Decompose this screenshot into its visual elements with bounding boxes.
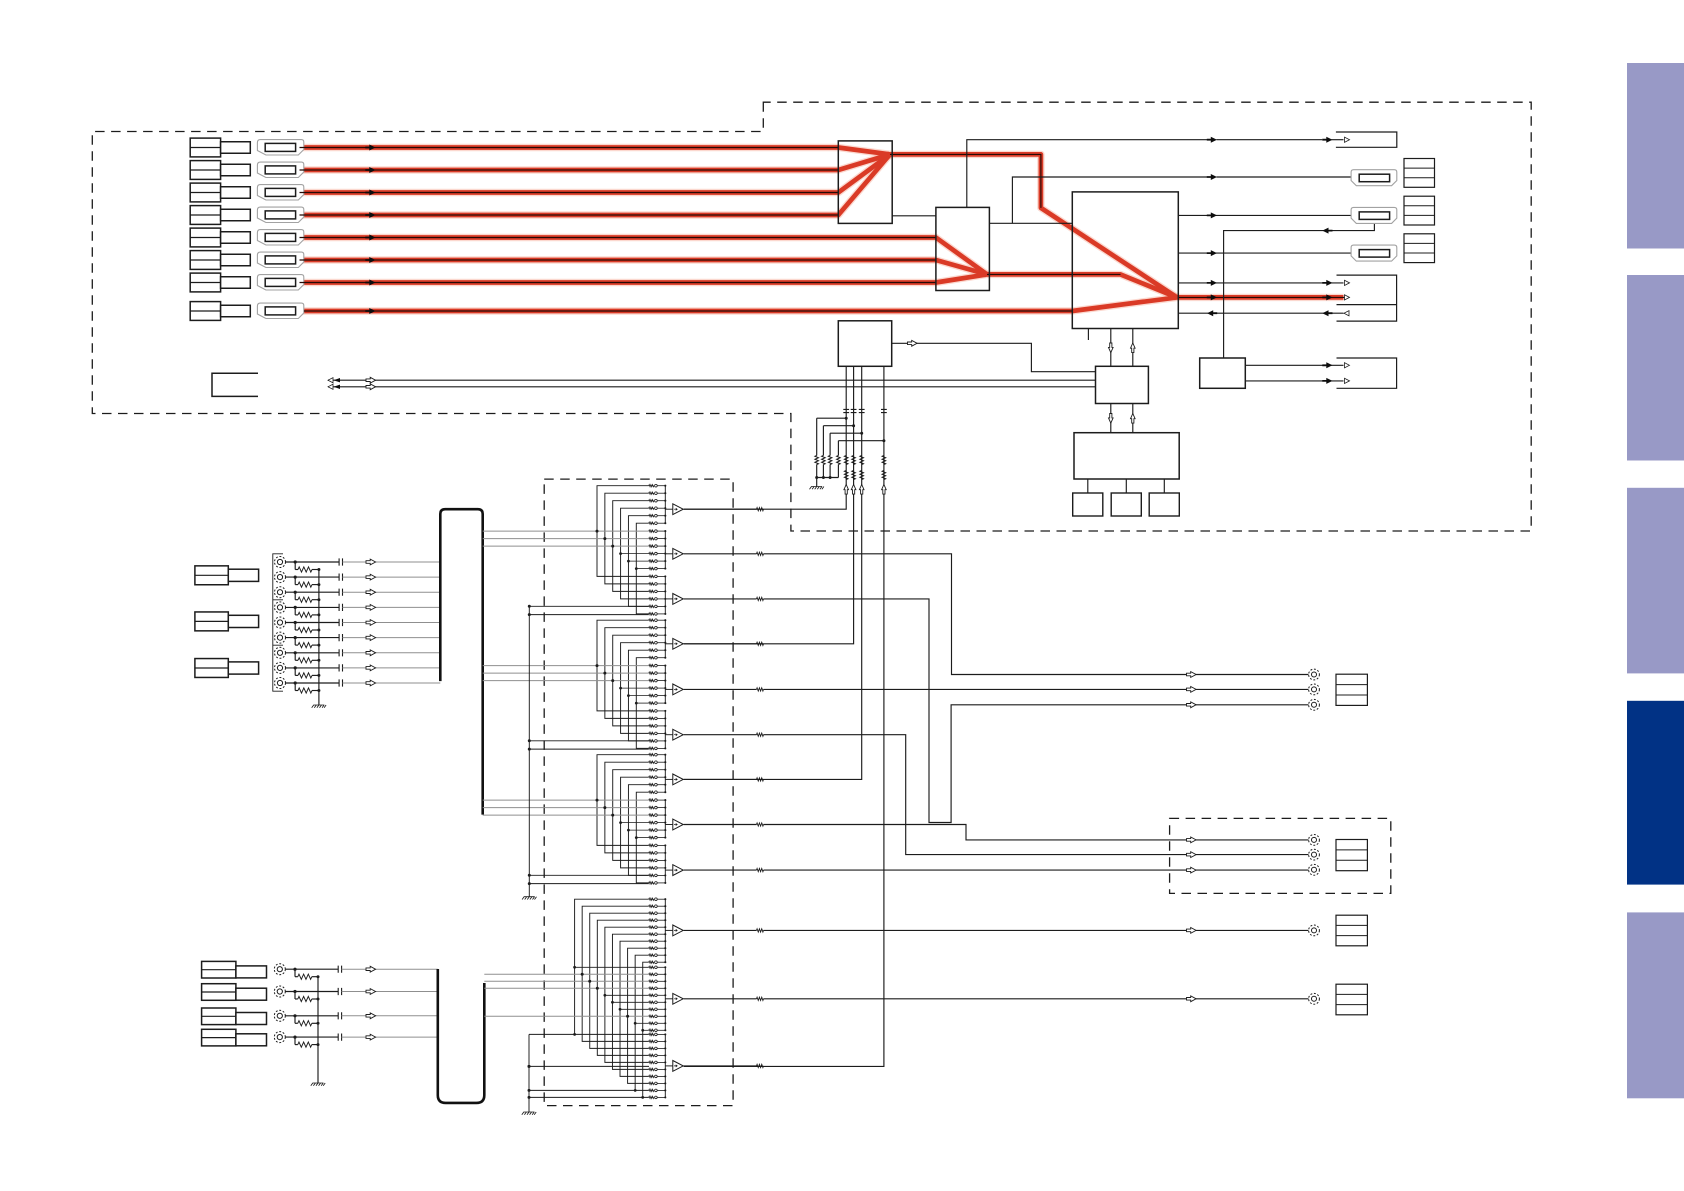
HDMI OUT 3 pin box xyxy=(1404,234,1435,263)
video buffer amp A3 xyxy=(665,598,673,600)
HDMI IN 4 connector J104 xyxy=(257,207,303,222)
nested selector brackets group 4 xyxy=(575,899,649,1034)
HDMI OUT 1 connector xyxy=(1351,170,1397,186)
wire U7 to bracket CN-C pin 1 xyxy=(1245,364,1343,366)
wire U1 to U2 link xyxy=(892,215,936,217)
video label pair 4 xyxy=(202,961,236,978)
wire U6 to X2 xyxy=(1125,479,1127,493)
nested selector brackets xyxy=(597,620,649,711)
wire U3 to HDMI OUT 2 xyxy=(1178,214,1359,216)
wire to ribbon xyxy=(343,561,441,563)
coupling capacitor xyxy=(338,966,341,973)
HDMI IN 6 connector J106 xyxy=(257,252,303,267)
coupling capacitor xyxy=(339,604,342,611)
RCA jack at y=577.1 xyxy=(275,572,286,583)
wire U3 output to HDMI monitor out xyxy=(1178,296,1345,298)
termination resistor xyxy=(294,607,296,615)
termination resistor xyxy=(294,683,296,691)
ground bus of RCA group xyxy=(317,977,319,1083)
ribbon cable bus 2 xyxy=(438,969,485,1103)
HDMI IN 8 connector J108 xyxy=(257,303,303,318)
wire jack to buffer input xyxy=(286,622,340,624)
series resistor on buffer A4 output xyxy=(684,643,757,645)
HDMI IN 3 connector J103 xyxy=(257,185,303,200)
switch bank rows xyxy=(649,754,654,756)
HDMI switch IC U1 xyxy=(838,141,892,224)
sidebar tab 3 xyxy=(1627,488,1684,674)
series resistor on buffer A11 output xyxy=(684,998,757,1000)
dashed boundary video buffer block (middle) xyxy=(544,479,733,1106)
termination resistor xyxy=(294,577,296,585)
wire TMDS row 8 to switch U3 xyxy=(304,310,1072,312)
ground pull-down network xyxy=(810,487,824,490)
wire to ribbon xyxy=(343,682,441,684)
termination resistor xyxy=(294,1037,296,1045)
wire HDMI OUT 2 HPD return to U7 xyxy=(1224,223,1375,358)
wire buffer A5 to monitor jack 2 xyxy=(764,688,1309,690)
RCA jack at y=637.6 xyxy=(275,632,286,643)
component label pair 3 xyxy=(195,659,228,678)
wire DDC channel 2 xyxy=(328,386,1096,388)
wire to ribbon xyxy=(343,637,441,639)
zone out RCA jack 3 xyxy=(1309,864,1320,875)
termination resistor xyxy=(294,562,296,570)
wire U2 output to U3 xyxy=(987,273,1121,275)
zone out RCA jack 1 xyxy=(1309,835,1320,846)
coupling capacitor xyxy=(339,649,342,656)
coupling capacitor xyxy=(339,664,342,671)
wire jack to buffer input xyxy=(285,1015,338,1017)
video label pair 7 xyxy=(202,1029,236,1046)
wire DDC channel 1 xyxy=(328,379,1096,381)
bus line 4 from U4 to buffer A12 output xyxy=(684,366,884,1066)
sidebar tab 1 xyxy=(1627,63,1684,249)
wire jack to buffer input xyxy=(286,652,340,654)
HDMI OUT 3 connector xyxy=(1351,245,1397,261)
video buffer amp A10 xyxy=(665,929,673,931)
HDMI IN 1 connector J101 xyxy=(257,140,303,155)
pull-up resistor network on bus lines xyxy=(817,417,847,419)
wire U2 right pin to HDMI OUT 1 xyxy=(989,222,1072,224)
video buffer amp A12 xyxy=(665,1065,673,1067)
termination resistor xyxy=(294,653,296,661)
wire buffer A10 to aux jack 1 xyxy=(764,929,1309,931)
wire to ribbon xyxy=(342,1036,438,1038)
coupling capacitor xyxy=(338,1012,341,1019)
bracket connector CN-B xyxy=(1337,275,1397,321)
bus resistors row 2 xyxy=(844,471,848,480)
wire U3 to HDMI OUT 3 xyxy=(1178,252,1359,254)
series resistor on buffer A8 output xyxy=(684,824,757,826)
bus line 2 from U4 to buffer A4 output xyxy=(684,366,854,644)
series resistor on buffer A2 output xyxy=(684,553,757,555)
zone out pin box xyxy=(1336,840,1367,871)
wire jack to buffer input xyxy=(286,591,340,593)
HDMI IN 7 label box xyxy=(190,273,220,292)
wire U4 to U5 xyxy=(892,343,1096,371)
matrix input lines xyxy=(483,799,649,801)
HDMI IN 6 label box xyxy=(190,251,220,270)
video buffer amp A7 xyxy=(665,778,673,780)
sidebar tab 4 active xyxy=(1627,701,1684,885)
wire jack to buffer input xyxy=(285,968,338,970)
termination resistor xyxy=(294,592,296,600)
RCA jack at y=622.5 xyxy=(275,617,286,628)
bus resistors row 1 xyxy=(844,456,848,465)
component label pair 2 xyxy=(195,612,228,631)
matrix input lines group 4 xyxy=(484,973,649,975)
resistor join to ground xyxy=(817,477,839,479)
wire to ribbon xyxy=(343,606,441,608)
wire to ribbon xyxy=(342,1015,438,1017)
OSD feed line xyxy=(529,1065,649,1067)
bank 2 staircase rows xyxy=(621,822,649,824)
HDMI IN 8 label box xyxy=(190,302,220,321)
video buffer amp A5 xyxy=(665,688,673,690)
DDC interface box xyxy=(212,373,258,396)
termination resistor xyxy=(294,969,296,977)
RCA jack at y=969.2 xyxy=(274,964,285,975)
HDMI IN 5 label box xyxy=(190,228,220,247)
HDMI IN 2 connector J102 xyxy=(257,162,303,177)
aux out RCA jack 2 xyxy=(1309,993,1320,1004)
series resistor on buffer A6 output xyxy=(684,734,757,736)
series resistor on buffer A3 output xyxy=(684,598,757,600)
wire U3 to bracket CN-B pin 1 xyxy=(1178,282,1343,284)
wire buffer A11 to aux jack 2 xyxy=(764,998,1309,1000)
aux out pin box 2 xyxy=(1336,984,1367,1015)
video label pair 5 xyxy=(202,984,236,1001)
wire bracket CN-B pin 3 return to U3 xyxy=(1178,312,1343,314)
ground bus of RCA group xyxy=(318,570,320,706)
arrows on red monitor out row xyxy=(1207,294,1217,300)
wire buffer A6 to zone jack 2 xyxy=(764,735,1309,855)
wire jack to buffer input xyxy=(286,667,340,669)
HDMI IN 2 label box xyxy=(190,161,220,180)
monitor out RCA jack 2 xyxy=(1309,684,1320,695)
wire jack to buffer input xyxy=(285,991,338,993)
wire buffer A9 to zone jack 3 xyxy=(764,869,1309,871)
matrix input lines xyxy=(483,665,649,667)
video label pair 6 xyxy=(202,1008,236,1025)
aux out RCA jack 1 xyxy=(1309,925,1320,936)
wire TMDS rows 1-4 to switch U1 xyxy=(300,147,839,149)
video buffer amp A4 xyxy=(665,643,673,645)
RCA jack at y=592.2 xyxy=(275,587,286,598)
RCA jack at y=1037.1 xyxy=(274,1032,285,1043)
wire U1 output to U3 xyxy=(890,154,1041,208)
monitor out pin box xyxy=(1336,674,1367,705)
ribbon cable bus 1 xyxy=(440,509,482,814)
HDMI IN 1 label box xyxy=(190,138,220,157)
bracket connector CN-A xyxy=(1336,132,1397,147)
bracket connector CN-C xyxy=(1337,358,1397,388)
monitor out RCA jack 3 xyxy=(1309,699,1320,710)
HDMI switch IC U2 xyxy=(936,207,990,290)
MCU box U5 xyxy=(1096,366,1149,403)
wire jack to buffer input xyxy=(285,1036,338,1038)
wire TMDS rows 5-7 to switch U2 xyxy=(300,237,936,239)
series resistor on buffer A10 output xyxy=(684,929,757,931)
component label pair 1 xyxy=(195,566,228,585)
switch bank rows xyxy=(649,485,654,487)
zone out RCA jack 2 xyxy=(1309,849,1320,860)
wire buffer A3 routing down xyxy=(764,599,1309,823)
select hook line 0 group 4 xyxy=(529,1033,575,1035)
wire buffer A2 to monitor jack 1 xyxy=(764,554,1309,675)
bus line 1 from U4 to buffer A1 output xyxy=(684,366,847,509)
arrows on HDMI input rows xyxy=(365,145,375,151)
crystal box X2 xyxy=(1111,493,1141,516)
termination resistor xyxy=(294,1016,296,1024)
wire jack to buffer input xyxy=(286,606,340,608)
switch bank rows group 4 xyxy=(649,898,654,900)
video buffer amp A6 xyxy=(665,734,673,736)
bank 2 staircase rows xyxy=(621,687,649,689)
RCA jack at y=1015.8 xyxy=(274,1010,285,1021)
wire jack to buffer input xyxy=(286,637,340,639)
HDMI repeater IC U3 xyxy=(1072,192,1178,329)
coupling capacitor xyxy=(339,619,342,626)
termination resistor xyxy=(294,668,296,676)
series resistor on buffer A1 output xyxy=(684,508,757,510)
wire jack to buffer input xyxy=(286,576,340,578)
ground riser of group 4 network xyxy=(528,1034,530,1112)
RCA jack at y=652.8 xyxy=(275,647,286,658)
RCA jack at y=562 xyxy=(275,557,286,568)
coupling capacitor xyxy=(338,988,341,995)
select hook line 2 group 4 xyxy=(529,1096,643,1098)
wire U5 to U6 data down xyxy=(1110,404,1112,433)
switch bank rows xyxy=(649,619,654,621)
dashed boundary zone-out block (right-bottom) xyxy=(1170,818,1391,893)
HDMI OUT 2 connector xyxy=(1351,207,1397,223)
wire U5 to U3 data up xyxy=(1132,329,1134,367)
dashed boundary digital/HDMI input block (top-left) and HDMI switch block (top-right) xyxy=(92,102,1531,531)
nested selector brackets xyxy=(597,486,649,577)
HDMI OUT 1 pin box xyxy=(1404,159,1435,188)
select hook line 1 group 4 xyxy=(529,1089,635,1091)
wire to ribbon xyxy=(343,576,441,578)
red highlighted HDMI signal path xyxy=(296,148,1344,312)
wire jack to buffer input xyxy=(286,561,340,563)
bank 2 staircase rows xyxy=(621,553,649,555)
termination resistor xyxy=(294,623,296,631)
video buffer amp A1 xyxy=(665,508,673,510)
wire U6 to X3 xyxy=(1163,479,1165,493)
wire U6 to X1 xyxy=(1087,479,1089,493)
coupling capacitor xyxy=(339,679,342,686)
nested selector brackets xyxy=(597,755,649,846)
input group bracket marks xyxy=(273,554,283,691)
coupling capacitor xyxy=(339,634,342,641)
bus line 3 from U4 to buffer A7 output xyxy=(684,366,862,779)
wire buffer A8 to zone jack 1 xyxy=(764,825,1309,840)
video buffer amp A2 xyxy=(665,553,673,555)
EDID/EEPROM box U6 xyxy=(1074,433,1179,479)
wire U3 to U5 data down xyxy=(1110,329,1112,367)
video buffer amp A9 xyxy=(665,869,673,871)
coupling capacitor xyxy=(339,558,342,565)
ground of group 4 network xyxy=(522,1112,536,1115)
wire U6 to U5 data up xyxy=(1132,404,1134,433)
crystal box X1 xyxy=(1073,493,1103,516)
wire jack to buffer input xyxy=(286,682,340,684)
HDMI IN 4 label box xyxy=(190,206,220,225)
video buffer amp A11 xyxy=(665,998,673,1000)
wire to ribbon xyxy=(342,968,438,970)
coupling capacitor xyxy=(338,1034,341,1041)
CEC/control box U4 xyxy=(838,321,891,367)
RCA jack at y=607.4 xyxy=(275,602,286,613)
chained select line xyxy=(528,606,530,896)
wire U2 top to output row A xyxy=(967,140,1207,208)
bank 2 staircase rows group 4 xyxy=(575,966,649,968)
aux out pin box 1 xyxy=(1336,915,1367,946)
wire to ribbon xyxy=(343,652,441,654)
HDMI IN 7 connector J107 xyxy=(257,275,303,290)
sidebar tab 5 xyxy=(1627,912,1684,1098)
wire to ribbon xyxy=(343,667,441,669)
wire U7 to bracket CN-C pin 2 xyxy=(1245,380,1343,382)
monitor out RCA jack 1 xyxy=(1309,669,1320,680)
wire U3 stub pin xyxy=(1087,329,1089,341)
series resistor on buffer A5 output xyxy=(684,688,757,690)
series resistor on buffer A7 output xyxy=(684,778,757,780)
matrix input lines xyxy=(483,530,649,532)
crystal box X3 xyxy=(1149,493,1179,516)
series resistor on buffer A12 output xyxy=(684,1065,757,1067)
coupling capacitor xyxy=(339,574,342,581)
HDMI OUT 2 pin box xyxy=(1404,196,1435,225)
RCA jack at y=991.5 xyxy=(274,986,285,997)
RCA jack at y=667.9 xyxy=(275,662,286,673)
termination resistor xyxy=(294,638,296,646)
RCA jack at y=683 xyxy=(275,678,286,689)
wire to ribbon xyxy=(343,591,441,593)
HDMI IN 3 label box xyxy=(190,183,220,202)
HDMI IN 5 connector J105 xyxy=(257,230,303,245)
series resistor on buffer A9 output xyxy=(684,869,757,871)
wire to ribbon xyxy=(342,991,438,993)
video buffer amp A8 xyxy=(665,824,673,826)
sidebar tab 2 xyxy=(1627,275,1684,461)
ground of chained select line xyxy=(522,897,536,900)
termination resistor xyxy=(294,992,296,1000)
audio return box U7 xyxy=(1200,358,1246,388)
wire to ribbon xyxy=(343,622,441,624)
supply arrows on bus lines xyxy=(844,485,849,495)
coupling capacitor xyxy=(339,589,342,596)
